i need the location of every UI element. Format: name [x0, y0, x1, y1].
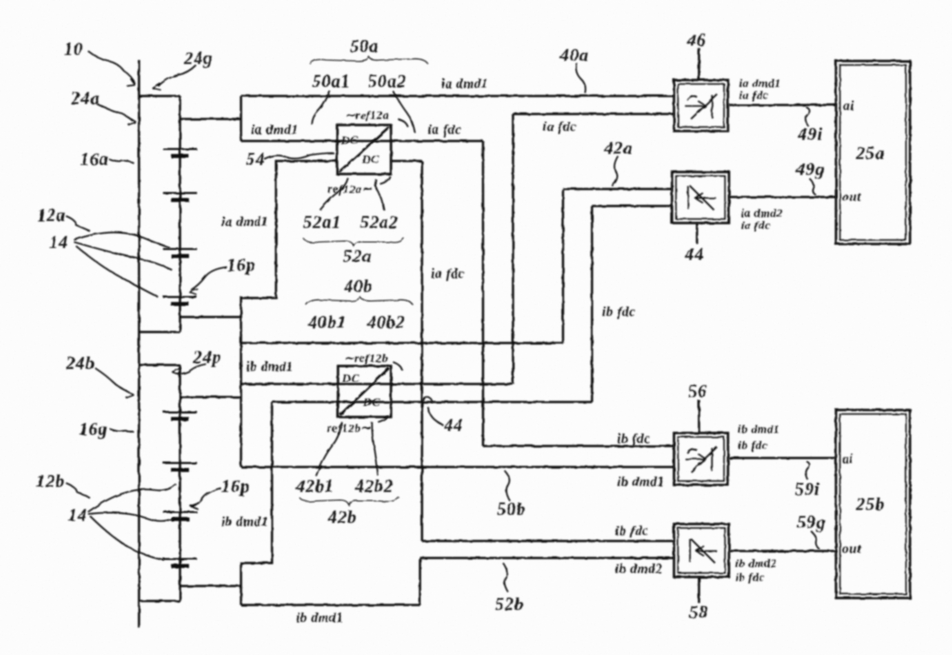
wire channel 42b bottom: [241, 466, 674, 468]
svg-text:46: 46: [686, 30, 706, 50]
wire box 58 output to 25b: [729, 550, 836, 552]
wire box 44 upper input: [563, 188, 672, 190]
svg-text:ref12b∼: ref12b∼: [327, 421, 372, 435]
wire box 44 lower input: [592, 205, 672, 207]
leader 12a: [66, 216, 90, 231]
wire riser to box 46 lower: [512, 114, 514, 384]
svg-text:ib dmd1: ib dmd1: [738, 422, 780, 436]
battery cell 14 (B2): [163, 463, 197, 470]
svg-text:24p: 24p: [192, 347, 222, 367]
svg-text:44: 44: [684, 244, 704, 264]
svg-text:42a: 42a: [603, 138, 633, 158]
driver box 46: [674, 80, 728, 131]
svg-text:ia fdc: ia fdc: [431, 266, 465, 281]
svg-text:ib fdc: ib fdc: [738, 438, 768, 452]
svg-text:14: 14: [49, 232, 68, 252]
wire box 46 lower input: [513, 113, 674, 115]
leader 10: [88, 51, 135, 84]
svg-text:ai: ai: [843, 98, 854, 113]
svg-text:44: 44: [443, 415, 463, 435]
leader ref12a bottom: [380, 176, 390, 184]
leader 49g: [809, 178, 816, 195]
wire box 44 output to 25a: [729, 196, 836, 198]
brace 42b: [299, 497, 399, 505]
load box 25b: [836, 410, 910, 598]
svg-text:25b: 25b: [855, 494, 885, 514]
wire channel 50a top: [241, 95, 674, 97]
svg-text:ib dmd1: ib dmd1: [617, 474, 664, 489]
svg-text:ib fdc: ib fdc: [615, 523, 649, 538]
wire box 46 output to 25a: [729, 104, 836, 106]
svg-text:out: out: [842, 189, 862, 204]
leader 40a: [577, 63, 586, 93]
svg-text:42b1: 42b1: [295, 476, 334, 496]
wire bottom run 52b: [241, 604, 420, 606]
svg-text:14: 14: [68, 505, 87, 525]
svg-text:59i: 59i: [795, 479, 820, 499]
svg-text:56: 56: [688, 381, 707, 401]
wire riser to box 44 upper: [562, 189, 564, 343]
wire tap B lower: [180, 585, 241, 587]
leader 24a: [97, 104, 133, 121]
svg-text:10: 10: [64, 39, 83, 59]
svg-text:ib dmd1: ib dmd1: [296, 610, 343, 625]
battery 12a bottom edge wire: [139, 331, 180, 333]
svg-text:25a: 25a: [855, 143, 885, 163]
brace 52a: [303, 238, 404, 246]
svg-text:∼ref12a: ∼ref12a: [345, 108, 389, 122]
svg-text:DC: DC: [362, 395, 381, 409]
leader 50a1: [312, 91, 330, 125]
driver box 44 symbol: [688, 186, 716, 210]
wire channel 42b top: [241, 383, 513, 385]
wire converter1 left output: [241, 161, 337, 298]
leader 16p B: [191, 488, 221, 507]
leader 52b: [503, 563, 508, 592]
wire long vertical 42a: [421, 161, 423, 541]
driver box 56: [674, 433, 728, 485]
leader 54: [264, 153, 334, 159]
svg-text:12b: 12b: [36, 471, 65, 491]
leader 42b2: [372, 422, 378, 476]
battery cell 14 (B3): [163, 512, 197, 519]
driver box 58: [674, 524, 729, 577]
svg-text:ia fdc: ia fdc: [739, 88, 769, 102]
wire tap A upper: [180, 118, 241, 120]
battery cell 14 (B1): [163, 412, 197, 419]
svg-text:DC: DC: [361, 152, 380, 166]
wire channel 50a left edge: [240, 96, 242, 141]
svg-text:24g: 24g: [183, 48, 213, 68]
leader ref12b bottom: [378, 415, 388, 422]
leader ref12b top: [393, 362, 402, 370]
leader 24b: [95, 368, 129, 392]
driver box 46 symbol: [685, 94, 717, 119]
wire to box 58 upper input: [422, 540, 674, 542]
svg-text:ia fdc: ia fdc: [428, 122, 462, 137]
wire converter2 lower line: [272, 401, 592, 403]
svg-text:ib dmd1: ib dmd1: [246, 359, 293, 374]
leader 50b: [505, 471, 510, 501]
driver box 44: [672, 172, 729, 223]
wire vertical bus 24g: [138, 60, 140, 628]
battery 12b string conductor: [179, 365, 181, 601]
wire riser to box 44 lower: [591, 206, 593, 402]
svg-text:59g: 59g: [797, 512, 826, 532]
svg-text:16g: 16g: [79, 419, 108, 439]
svg-text:24b: 24b: [65, 353, 95, 373]
wire 44 leader stem: [696, 223, 698, 244]
svg-text:42b: 42b: [327, 507, 357, 527]
leader ref12a top: [398, 119, 408, 127]
svg-text:ib dmd2: ib dmd2: [615, 561, 662, 576]
brace 50a: [310, 57, 428, 64]
svg-text:54: 54: [246, 149, 265, 169]
svg-text:52a1: 52a1: [303, 212, 341, 232]
battery 12a string conductor: [179, 96, 181, 332]
converter U1 (DC/DC 12a) box: [337, 125, 391, 174]
leader 16p A: [191, 267, 227, 290]
battery cell 14 (B4): [163, 559, 197, 566]
svg-text:16p: 16p: [227, 255, 256, 275]
svg-text:ai: ai: [842, 451, 853, 466]
battery 12b top edge wire: [139, 364, 180, 366]
leader 24g: [158, 65, 196, 86]
leader 52a2: [375, 179, 384, 210]
wire box 58 lower input: [420, 557, 674, 559]
leader 14 spider A: [74, 232, 170, 248]
svg-text:ia fdc: ia fdc: [741, 218, 771, 232]
wire left mid vertical: [240, 296, 242, 467]
battery 12a top edge wire: [139, 95, 180, 97]
svg-text:40b: 40b: [343, 276, 373, 296]
svg-text:58: 58: [689, 602, 708, 622]
svg-text:∼ref12b: ∼ref12b: [344, 351, 388, 365]
converter U1 diagonal: [339, 127, 389, 172]
leader 59g: [811, 531, 819, 549]
svg-text:12a: 12a: [37, 205, 66, 225]
svg-text:42b2: 42b2: [354, 476, 393, 496]
svg-text:ref12a∼: ref12a∼: [328, 182, 373, 196]
battery cell 14 (A1): [163, 149, 197, 156]
svg-text:40a: 40a: [559, 45, 589, 65]
battery cell 14 (A3): [163, 249, 197, 256]
wire box 56 output to 25b: [729, 457, 836, 459]
leader 24p: [177, 364, 206, 374]
svg-text:ib fdc: ib fdc: [735, 570, 765, 584]
leader 16a: [109, 159, 134, 163]
brace 40b: [306, 297, 413, 305]
leader 44 mid hook: [428, 407, 443, 425]
svg-text:ib fdc: ib fdc: [617, 431, 651, 446]
wire converter2 left drop: [241, 402, 272, 605]
wire channel 50a bottom (through converter): [241, 140, 483, 142]
driver box 56 symbol: [685, 447, 717, 472]
wire 56 leader stem: [698, 400, 700, 433]
svg-text:ia fdc: ia fdc: [543, 119, 577, 134]
converter U2 (DC/DC 12b) box: [338, 366, 391, 417]
svg-text:ib dmd1: ib dmd1: [221, 514, 268, 529]
wire 40b top line: [241, 342, 563, 344]
wire tap A lower: [180, 316, 241, 318]
leader 49i: [806, 107, 810, 126]
svg-text:DC: DC: [341, 371, 360, 385]
svg-text:ia dmd1: ia dmd1: [441, 76, 488, 91]
wire 46 leader stem: [698, 48, 700, 80]
leader 59i: [806, 461, 810, 480]
converter U2 diagonal: [340, 368, 389, 415]
svg-text:50a1: 50a1: [312, 71, 350, 91]
wire 52a drop from converter1 to node: [482, 141, 484, 446]
wire tap B upper: [180, 396, 241, 398]
svg-text:49i: 49i: [797, 124, 823, 144]
battery cell 14 (A2): [163, 193, 197, 200]
wire 58 leader stem: [698, 577, 700, 603]
svg-text:52a: 52a: [343, 246, 372, 266]
svg-text:out: out: [842, 541, 862, 556]
svg-text:50a2: 50a2: [368, 71, 406, 91]
svg-text:DC: DC: [340, 133, 359, 147]
svg-text:ia dmd1: ia dmd1: [251, 122, 298, 137]
battery 12b bottom edge wire: [139, 600, 180, 602]
wire converter1 right output: [391, 160, 422, 162]
svg-text:ib fdc: ib fdc: [602, 304, 636, 319]
leader 42b1: [316, 422, 342, 476]
svg-text:50b: 50b: [497, 499, 526, 519]
driver box 58 symbol: [690, 539, 717, 563]
svg-text:49g: 49g: [795, 159, 825, 179]
leader 50a2: [393, 91, 415, 133]
svg-text:16a: 16a: [80, 149, 109, 169]
svg-text:52a2: 52a2: [360, 212, 398, 232]
svg-text:ia dmd1: ia dmd1: [221, 214, 268, 229]
svg-text:50a: 50a: [350, 36, 379, 56]
leader 52a1: [320, 178, 348, 210]
leader 12b: [66, 483, 90, 498]
leader 14 spider B: [88, 484, 176, 512]
load box 25a: [836, 61, 910, 244]
wire to box 56 upper input: [483, 445, 674, 447]
leader 16g: [110, 429, 134, 432]
svg-text:16p: 16p: [221, 476, 250, 496]
svg-text:40b1: 40b1: [307, 312, 346, 332]
svg-text:24a: 24a: [70, 88, 100, 108]
svg-text:ib dmd2: ib dmd2: [735, 556, 777, 570]
battery cell 14 (A4): [163, 297, 197, 304]
svg-text:52b: 52b: [495, 594, 524, 614]
leader 42a: [612, 156, 618, 186]
wire bottom riser: [419, 558, 421, 605]
svg-text:40b2: 40b2: [366, 312, 405, 332]
